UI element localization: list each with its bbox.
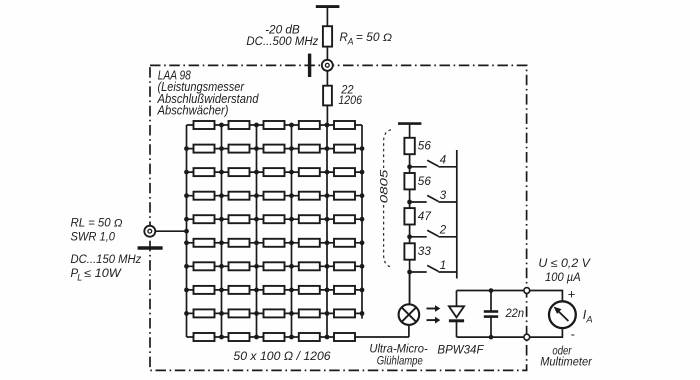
label switch 3 [440,190,447,202]
svg-text:R: R [340,32,348,44]
svg-text:Ultra-Micro-: Ultra-Micro- [369,344,427,356]
grid internal bus columns [222,125,328,337]
label 22n [505,308,524,320]
title LAA 98 block [157,69,260,118]
wire meter to lower terminal [530,328,563,337]
switch S2 [410,230,457,237]
attenuator terminal T-bar [398,122,421,125]
svg-text:22n: 22n [505,308,524,320]
svg-text:100 µA: 100 µA [545,272,581,284]
0805 brace (dashed) [384,130,391,267]
label 0805 (rotated) [378,169,390,204]
resistor 22/1206 [323,86,332,106]
wire resistor to junction [409,260,411,304]
meter IA (microammeter) [549,301,576,328]
label 56 [418,141,432,153]
node tap 2 [407,234,412,239]
svg-text:56: 56 [418,141,432,153]
switch S1 [410,265,457,272]
resistor 47 (0805 chain #3) [404,208,414,224]
resistor RA [323,26,332,46]
switch S3 [410,195,457,202]
wire T-bar to R 56 [409,124,411,138]
antenna terminal T-bar top [316,5,340,8]
photodiode bottom rail [457,336,527,338]
label 33 [418,246,432,258]
svg-text:A: A [585,314,592,324]
svg-text:= 50 Ω: = 50 Ω [356,32,392,44]
svg-text:+: + [568,287,576,302]
svg-text:-: - [571,327,576,342]
svg-text:-20 dB: -20 dB [265,25,300,37]
label RL / SWR / DC / PL block [71,218,142,283]
svg-text:DC...500 MHz: DC...500 MHz [246,36,318,48]
wire resistor to junction [409,154,411,181]
label 47 [418,211,432,223]
terminal upper (on border) [524,288,530,294]
node tap 1 [407,270,412,275]
label 56 [418,176,432,188]
svg-text:3: 3 [440,190,447,202]
svg-text:RL = 50 Ω: RL = 50 Ω [71,218,123,230]
svg-text:SWR 1,0: SWR 1,0 [71,232,116,244]
svg-text:U ≤ 0,2 V: U ≤ 0,2 V [538,258,591,270]
svg-text:L: L [77,273,82,283]
resistor grid 50 x 100 Ohm: row lines [187,125,410,337]
wire RA to connector [326,47,328,60]
svg-text:1206: 1206 [338,95,362,107]
wire tap1 to lamp [409,272,411,304]
grid left bus [186,125,188,337]
terminal lower (on border) [524,334,530,340]
label 50 x 100 Ohm / 1206 [233,349,331,363]
switch common bus [456,150,458,279]
switch S4 [410,160,457,167]
svg-text:47: 47 [418,211,432,223]
svg-text:4: 4 [440,155,446,167]
svg-text:A: A [347,36,354,46]
label plus [568,287,576,302]
label switch 1 [440,260,446,272]
wire lamp to grid row 10 [408,325,410,337]
coax connector shell bar (top) [308,54,311,77]
coax connector shell bar (left) [138,246,163,249]
lamp (Ultra-Micro-Gluehlampe) [399,304,420,325]
wire connector to R 22 [326,71,328,86]
wire resistor to junction [409,225,411,251]
label switch 2 [439,225,447,237]
svg-text:≤ 10W: ≤ 10W [84,268,122,280]
svg-text:0805: 0805 [378,169,390,204]
capacitor 22n [484,291,498,338]
node capacitor bottom [489,335,494,340]
svg-text:50 x 100 Ω / 1206: 50 x 100 Ω / 1206 [233,349,331,363]
photodiode top rail [457,290,527,292]
node tap 4 [407,164,412,169]
node capacitor top [489,288,494,293]
svg-text:56: 56 [418,176,432,188]
svg-text:1: 1 [440,260,446,272]
grid right bus [361,125,363,319]
label minus [571,327,576,342]
wire T-bar to RA [326,7,328,27]
wire R22 to grid [326,105,328,125]
resistor 33 (0805 chain #4) [404,243,414,259]
node tap 3 [407,200,412,205]
coax connector J2 (left, on border) [144,226,155,237]
wire left connector to grid [150,230,187,232]
svg-text:DC...150 MHz: DC...150 MHz [71,254,142,266]
svg-text:33: 33 [418,246,432,258]
coax connector J1 (top, on border) [322,60,333,71]
label -20 dB / DC...500 MHz [246,25,318,48]
svg-text:Abschwächer): Abschwächer) [157,103,229,117]
label switch 4 [440,155,446,167]
grid junction dots [184,123,364,340]
svg-text:BPW34F: BPW34F [437,345,484,357]
label BPW34F [437,345,484,357]
wire resistor to junction [409,189,411,216]
label oder Multimeter [540,346,593,369]
svg-text:2: 2 [439,225,447,237]
resistor 56 (0805 chain #2) [404,173,414,189]
svg-text:Glühlampe: Glühlampe [377,356,423,368]
wire upper terminal to meter [530,291,563,302]
svg-text:Multimeter: Multimeter [540,357,593,369]
enclosure border (dash-dot box LAA 98) [150,65,527,370]
label U / 100uA [538,258,591,284]
light arrows [427,305,441,323]
photodiode BPW34F [449,291,464,338]
label 22 / 1206 [338,85,362,107]
label IA [583,308,593,325]
label Ultra-Micro-Gluehlampe [369,344,427,368]
label RA = 50 Ohm [340,32,393,46]
grid resistor bodies (50x) [194,121,356,341]
resistor 56 (0805 chain #1) [404,138,414,154]
